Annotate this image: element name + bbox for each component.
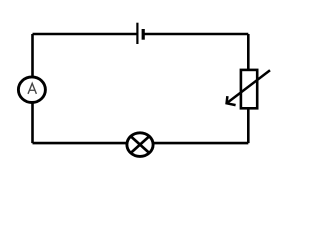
variable resistor R1 body xyxy=(241,70,257,108)
lamp L1 cross line 1 xyxy=(131,136,150,153)
battery cell long plate (positive) xyxy=(136,23,138,44)
wire bottom segment xyxy=(33,142,249,145)
variable resistor R1 arrowhead xyxy=(227,96,236,105)
ammeter A1 label xyxy=(28,83,36,94)
variable resistor R1 arrow shaft xyxy=(227,70,270,103)
ammeter A1 circle xyxy=(18,77,45,103)
wire top-right segment xyxy=(144,33,248,36)
wire top-left segment xyxy=(33,33,138,36)
lamp L1 circle xyxy=(127,133,153,157)
lamp L1 cross line 2 xyxy=(131,136,150,153)
wire right vertical xyxy=(247,34,250,143)
battery cell short plate (negative) xyxy=(142,29,145,40)
wire left vertical xyxy=(31,34,34,143)
